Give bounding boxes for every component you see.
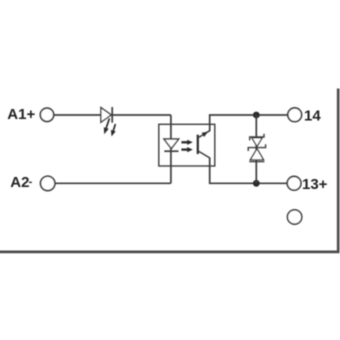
terminal 13+ circle bbox=[287, 176, 301, 190]
phototransistor Q1 bbox=[198, 131, 210, 158]
svg-text:13+: 13+ bbox=[302, 176, 328, 193]
svg-text:A2: A2 bbox=[10, 174, 29, 191]
optocoupler U1 box bbox=[159, 124, 215, 166]
terminal A2- circle bbox=[41, 176, 55, 190]
LED D1 arrow 1 bbox=[104, 119, 110, 135]
terminal spare circle bbox=[287, 210, 301, 224]
wire left branch vertical bbox=[170, 115, 172, 183]
wire A2- to left branch bbox=[55, 182, 171, 184]
LED D1 arrow 2 bbox=[111, 124, 116, 136]
svg-text:14: 14 bbox=[304, 107, 321, 124]
node junction top bbox=[253, 112, 260, 119]
TVS suppressor diode D2 bbox=[248, 134, 265, 162]
panel border bottom/right bbox=[0, 89, 338, 252]
optocoupler U1 internal LED bbox=[164, 139, 179, 151]
node junction bottom bbox=[253, 180, 260, 187]
wire collector to top bbox=[210, 115, 288, 131]
terminal A1+ circle bbox=[40, 108, 53, 121]
wire A1+ to left branch bbox=[54, 114, 171, 116]
svg-text:-: - bbox=[29, 176, 33, 188]
wire TVS branch vertical bbox=[255, 115, 257, 183]
terminal 14 circle bbox=[288, 108, 302, 122]
optocoupler coupling arrow 1 bbox=[181, 140, 192, 145]
optocoupler coupling arrow 2 bbox=[181, 147, 192, 152]
wire emitter to bottom bbox=[210, 157, 287, 183]
svg-text:A1+: A1+ bbox=[7, 106, 35, 123]
LED D1 indicator diode bbox=[101, 107, 112, 123]
